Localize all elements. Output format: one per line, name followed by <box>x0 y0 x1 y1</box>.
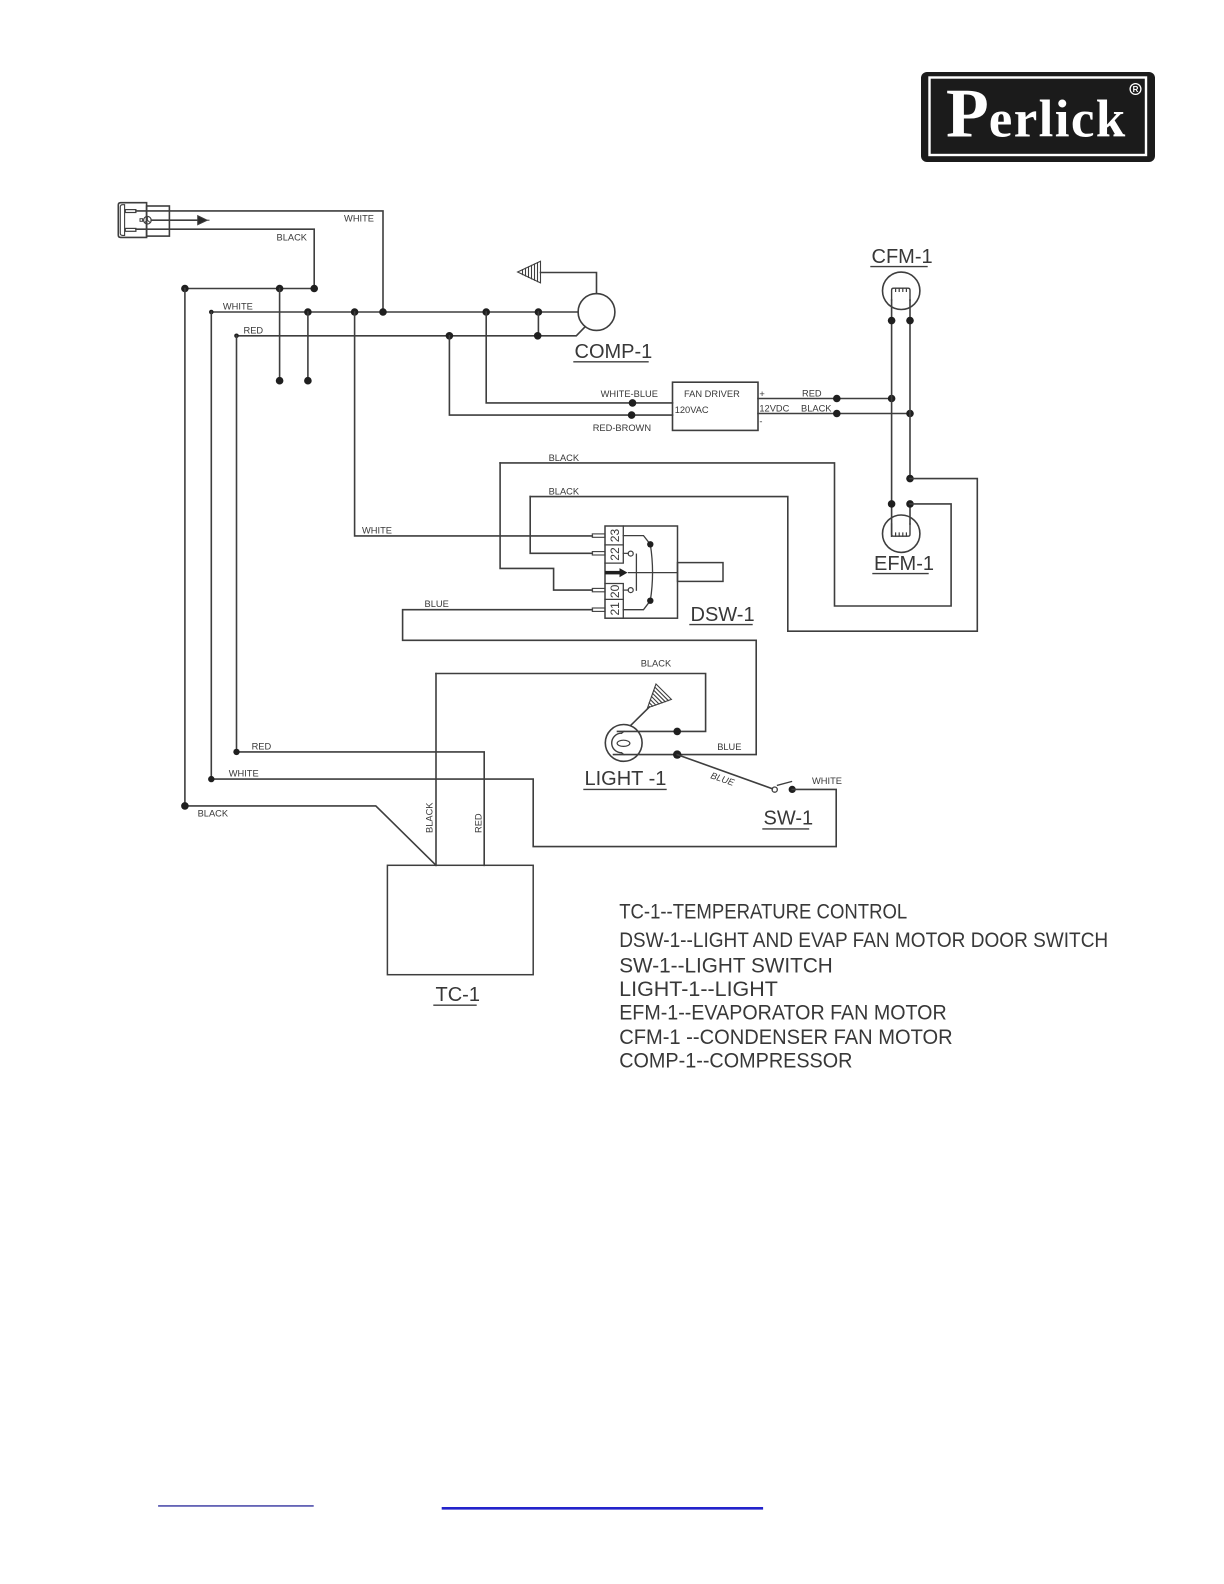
DSW-1 pin 23 <box>592 534 605 537</box>
DSW-1 pin 20 <box>592 588 605 591</box>
junction dot <box>534 332 542 340</box>
svg-text:FAN DRIVER: FAN DRIVER <box>684 389 740 399</box>
svg-text:RED: RED <box>244 325 264 335</box>
wire BLACK door switch pin22 to CFM-1 right lead <box>530 479 977 632</box>
svg-text:BLUE: BLUE <box>425 599 449 609</box>
svg-text:WHITE: WHITE <box>344 214 374 224</box>
ground arrow from plug <box>151 219 198 221</box>
svg-text:21: 21 <box>608 602 622 616</box>
underline EFM-1 <box>873 573 928 575</box>
wire WHITE bus row <box>211 311 578 313</box>
svg-text:22: 22 <box>608 547 622 561</box>
DSW-1 pin 22 <box>592 552 605 555</box>
junction dot <box>304 308 312 316</box>
switch SW-1 fixed contact dot <box>789 786 796 793</box>
DSW-1 NO contact lower <box>628 588 633 593</box>
door switch DSW-1 body <box>605 526 678 618</box>
junction dot <box>628 411 636 419</box>
underline TC-1 <box>434 1004 476 1006</box>
svg-text:RED-BROWN: RED-BROWN <box>593 423 651 433</box>
footer link rule long <box>443 1507 762 1510</box>
corner dot white return <box>208 776 214 782</box>
svg-text:RED: RED <box>473 813 483 833</box>
svg-text:WHITE: WHITE <box>223 302 253 312</box>
power plug P1 ground pin <box>144 216 152 224</box>
wire BLACK 12VDC- output to CFM right lead <box>758 413 910 415</box>
svg-text:WHITE: WHITE <box>229 769 259 779</box>
junction dot <box>482 308 490 316</box>
wire CFM-1 right lead down <box>909 300 911 479</box>
underline LIGHT -1 <box>584 788 666 790</box>
condenser fan motor CFM-1 circle <box>883 272 920 309</box>
wire RED bus row <box>237 327 585 335</box>
wire BLACK riser to TC-1 <box>435 674 437 866</box>
wire BLACK lower row diagonal to TC-1 <box>185 806 436 865</box>
junction dot <box>888 395 896 403</box>
DSW-1 arc end dot lower <box>647 598 653 604</box>
wire EFM-1 right terminal <box>909 504 911 524</box>
junction dot <box>310 285 318 293</box>
wire RED 12VDC+ output to CFM left lead <box>758 398 892 400</box>
svg-text:EFM-1--EVAPORATOR FAN MOTOR: EFM-1--EVAPORATOR FAN MOTOR <box>619 1002 947 1025</box>
junction dot <box>906 317 914 325</box>
LIGHT-1 filament <box>612 733 622 753</box>
wire black far-left vertical <box>184 289 186 806</box>
wire WHITE from SW-1 back to white bus <box>211 779 836 847</box>
svg-text:SW-1: SW-1 <box>764 808 814 830</box>
wire red vertical to lower red row <box>236 336 238 752</box>
svg-text:BLACK: BLACK <box>641 658 672 668</box>
wire RED lower row to TC-1 <box>237 752 485 865</box>
junction dot EFM right terminal <box>906 500 914 508</box>
wire white bus to red bus tie <box>537 312 539 336</box>
wire red-brown to fan driver <box>449 336 672 415</box>
wire stub from black row down <box>279 289 281 381</box>
DSW-1 pin 21 <box>592 608 605 611</box>
junction dot light bottom <box>673 750 681 758</box>
svg-text:BLACK: BLACK <box>277 233 308 243</box>
svg-text:COMP-1--COMPRESSOR: COMP-1--COMPRESSOR <box>619 1050 852 1073</box>
underline SW-1 <box>763 828 809 830</box>
junction dot <box>351 308 359 316</box>
wire white vertical to lower white row <box>210 312 212 779</box>
wire CFM-1 left lead down to EFM-1 winding <box>891 300 893 536</box>
svg-text:DSW-1--LIGHT AND EVAP FAN MOTO: DSW-1--LIGHT AND EVAP FAN MOTOR DOOR SWI… <box>619 929 1108 952</box>
svg-text:WHITE: WHITE <box>362 526 392 536</box>
DSW-1 terminal strip upper block <box>605 526 623 563</box>
wire stub from white bus down <box>307 312 309 381</box>
stub end dot <box>276 377 284 385</box>
junction dot <box>181 285 189 293</box>
DSW-1 common line to plunger <box>629 572 678 574</box>
DSW-1 lead pin23 to moving contact <box>623 536 650 545</box>
temperature control TC-1 box <box>387 865 533 974</box>
Perlick logo registered trademark symbol <box>1130 84 1141 95</box>
chassis ground symbol (hatched arrow) at LIGHT-1 <box>640 684 672 716</box>
DSW-1 lead pin21 to moving contact <box>623 601 650 610</box>
svg-text:BLACK: BLACK <box>424 802 434 833</box>
wire BLACK pin22 branch down to switch <box>530 497 592 554</box>
svg-text:BLACK: BLACK <box>549 487 580 497</box>
svg-text:LIGHT-1--LIGHT: LIGHT-1--LIGHT <box>619 978 778 1001</box>
DSW-1 contact bar <box>635 554 637 590</box>
wire BLACK pin20 branch down to switch <box>500 463 592 590</box>
wire LIGHT-1 bottom terminal <box>614 754 678 756</box>
junction dot <box>833 395 841 403</box>
DSW-1 arc end dot upper <box>647 541 653 547</box>
junction dot <box>535 308 543 316</box>
lamp LIGHT-1 bulb circle <box>605 725 642 762</box>
EFM-1 winding symbol <box>892 524 910 536</box>
junction dot EFM left terminal <box>888 500 896 508</box>
fan driver module box <box>673 382 759 430</box>
power plug P1 body <box>118 203 146 238</box>
footer link rule short <box>159 1505 313 1507</box>
wire WHITE from plug to white bus corner <box>136 211 383 312</box>
svg-text:BLACK: BLACK <box>549 453 580 463</box>
evaporator fan motor EFM-1 circle <box>883 515 920 552</box>
wire LIGHT-1 top terminal <box>618 730 678 732</box>
wire white-blue to fan driver <box>486 312 672 403</box>
svg-text:COMP-1: COMP-1 <box>575 341 653 363</box>
svg-text:EFM-1: EFM-1 <box>874 553 934 575</box>
svg-text:TC-1: TC-1 <box>436 984 480 1006</box>
wire LIGHT-1 to chassis ground <box>631 707 650 726</box>
junction dot <box>446 332 454 340</box>
svg-text:WHITE: WHITE <box>812 776 842 786</box>
corner dot red bus <box>234 334 239 339</box>
svg-text:+: + <box>759 389 764 399</box>
svg-text:BLUE: BLUE <box>717 742 741 752</box>
junction dot light top <box>673 728 681 736</box>
power plug P1 line prong <box>125 228 136 231</box>
junction dot <box>276 285 284 293</box>
svg-text:LIGHT -1: LIGHT -1 <box>585 768 667 790</box>
junction dot <box>888 317 896 325</box>
svg-text:RED: RED <box>252 741 272 751</box>
wire white vertical to door switch pin 23 <box>355 312 593 536</box>
svg-text:SW-1--LIGHT SWITCH: SW-1--LIGHT SWITCH <box>619 954 833 977</box>
underline DSW-1 <box>690 624 752 626</box>
junction dot <box>906 475 914 483</box>
wire COMP-1 to chassis ground <box>541 273 597 294</box>
svg-text:BLACK: BLACK <box>198 808 229 818</box>
svg-text:DSW-1: DSW-1 <box>691 604 755 626</box>
DSW-1 terminal strip lower block <box>605 584 623 619</box>
switch SW-1 open contact circle <box>772 787 777 792</box>
svg-text:CFM-1: CFM-1 <box>872 246 933 268</box>
junction dot <box>379 308 387 316</box>
svg-text:BLUE: BLUE <box>709 770 736 788</box>
stub end dot <box>304 377 312 385</box>
underline CFM-1 <box>871 266 927 268</box>
svg-text:CFM-1 --CONDENSER FAN MOTOR: CFM-1 --CONDENSER FAN MOTOR <box>619 1026 953 1049</box>
corner dot white bus <box>209 310 214 315</box>
wire BLACK from plug to junction row <box>136 229 314 288</box>
DSW-1 moving contact arc <box>650 544 652 600</box>
underline COMP-1 <box>574 361 648 363</box>
junction dot red lower <box>233 749 239 755</box>
power plug P1 neutral prong <box>125 210 136 213</box>
svg-text:12VDC: 12VDC <box>759 403 789 413</box>
svg-text:120VAC: 120VAC <box>675 405 709 415</box>
DSW-1 common arrow <box>605 571 620 575</box>
svg-text:23: 23 <box>608 529 622 543</box>
wire black junction row <box>185 288 314 290</box>
CFM-1 winding symbol <box>892 288 910 300</box>
svg-text:R: R <box>1133 85 1139 94</box>
power plug P1 cable housing <box>147 206 170 236</box>
junction dot <box>629 399 637 407</box>
DSW-1 NO contact upper <box>628 551 633 556</box>
wire BLUE light to switch SW-1 (diagonal) <box>677 755 772 789</box>
chassis ground symbol (hatched arrow) at COMP-1 <box>518 261 541 283</box>
wire BLUE door switch pin21 to light <box>403 610 757 755</box>
svg-text:WHITE-BLUE: WHITE-BLUE <box>601 389 658 399</box>
svg-text:-: - <box>759 417 762 427</box>
wire BLACK door switch pin20 to EFM-1 right terminal <box>500 463 951 606</box>
DSW-1 plunger <box>678 563 724 582</box>
svg-text:RED: RED <box>802 389 822 399</box>
junction dot black lower <box>181 802 189 810</box>
Perlick logo outer black box <box>921 72 1155 162</box>
junction dot <box>906 410 914 418</box>
svg-text:TC-1--TEMPERATURE CONTROL: TC-1--TEMPERATURE CONTROL <box>619 900 907 923</box>
wire BLACK to light (from TC riser corner) <box>436 674 706 732</box>
svg-text:20: 20 <box>608 584 622 598</box>
Perlick logo inner white border <box>930 78 1147 156</box>
svg-text:BLACK: BLACK <box>801 404 832 414</box>
junction dot <box>833 410 841 418</box>
compressor COMP-1 circle <box>578 294 615 331</box>
switch SW-1 blade <box>778 782 792 786</box>
